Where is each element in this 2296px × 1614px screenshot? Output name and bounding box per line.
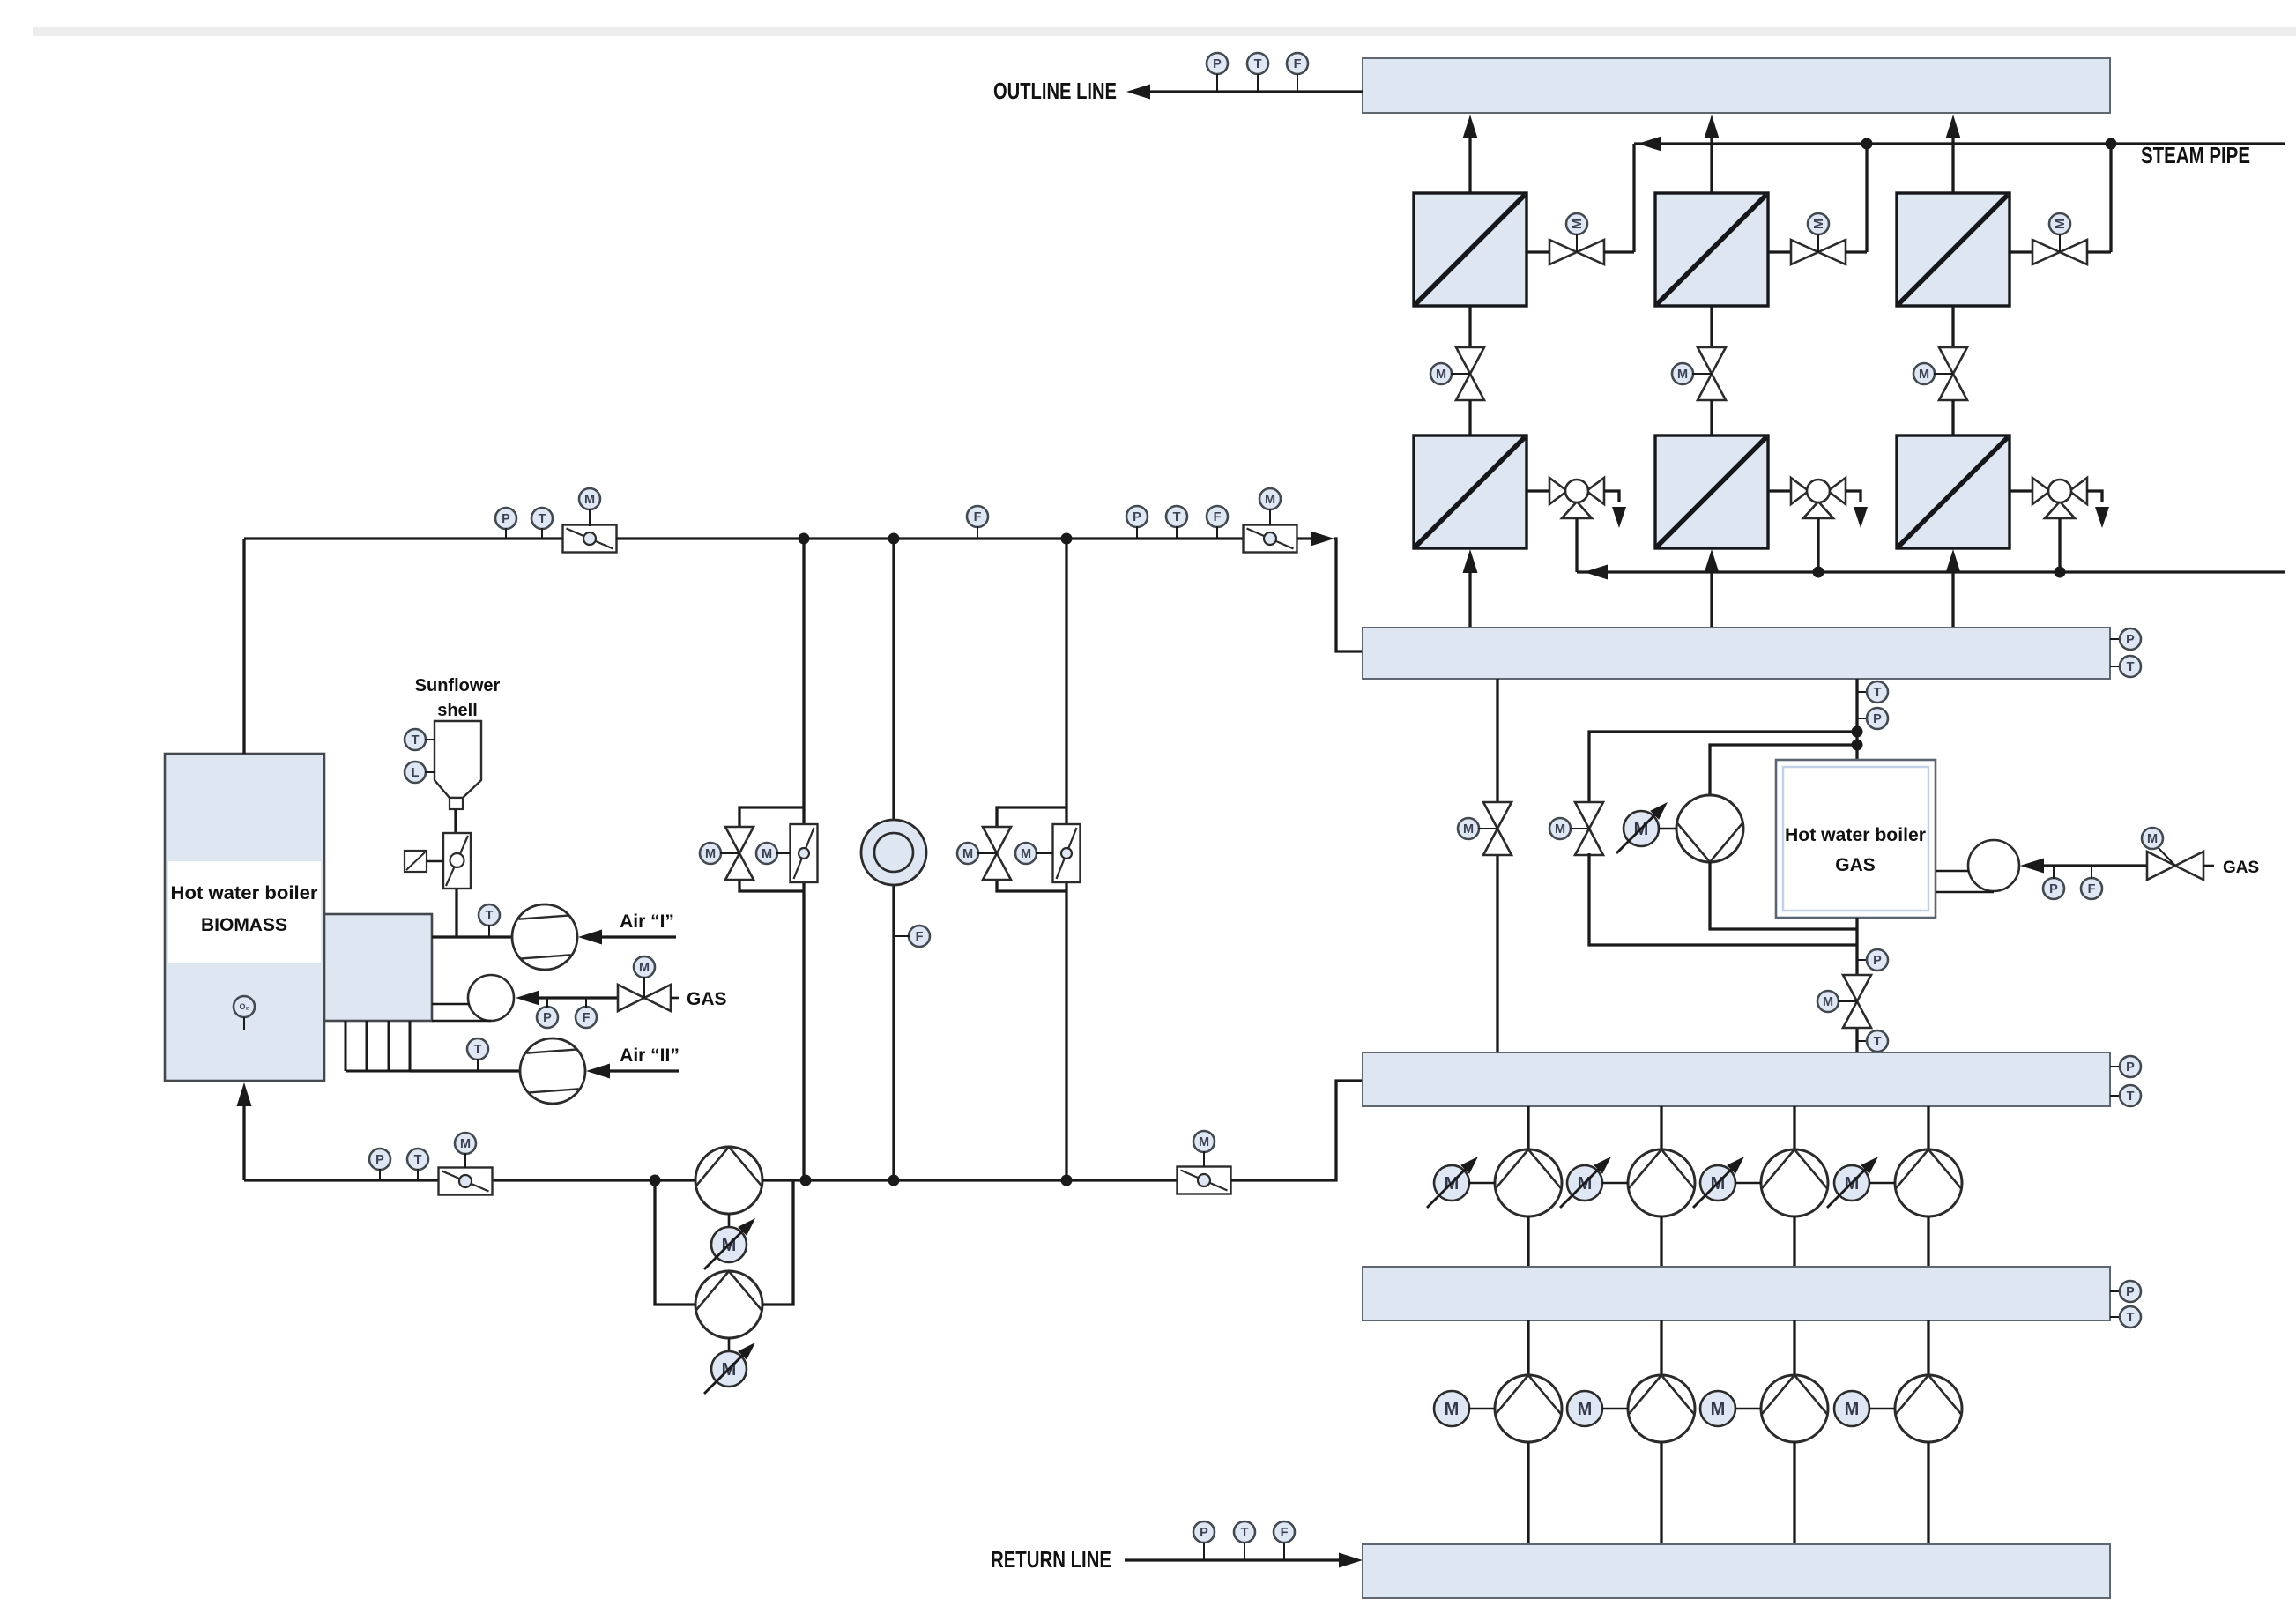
three-way valve 2 drain (1846, 491, 1861, 502)
wire header3 to pump 3 (1793, 1106, 1795, 1150)
svg-text:T: T (1173, 510, 1181, 524)
steam pipe drop 1 (1632, 144, 1635, 252)
T instrument hopper (405, 729, 426, 750)
T instrument header2 (2110, 666, 2121, 667)
junction recirc x2063 (1813, 567, 1824, 578)
circulation pump A (695, 1147, 762, 1214)
svg-text:P: P (543, 1011, 552, 1025)
riser 3 (1065, 539, 1067, 1180)
wire header4 to pump 7 (1793, 1320, 1795, 1376)
M drive gas boiler pump (1624, 811, 1659, 846)
junction pump bypass (650, 1175, 661, 1186)
svg-text:M: M (460, 1137, 471, 1151)
M drive pump 6 (1567, 1391, 1602, 1426)
M actuator flow element 1 (579, 488, 600, 509)
M actuator motor valve 1 (1430, 363, 1452, 384)
svg-text:P: P (2126, 633, 2135, 647)
three-way valve 1 (1527, 489, 1549, 492)
svg-text:M: M (1578, 1400, 1593, 1419)
svg-text:T: T (2127, 660, 2135, 674)
wire header2 to exchanger HX4 (1468, 556, 1471, 629)
P instrument return (369, 1149, 390, 1170)
header supply collector (1363, 628, 2110, 679)
svg-text:M: M (1919, 368, 1929, 382)
air II duct (410, 1069, 520, 1072)
wire feeder to air duct (455, 889, 457, 937)
svg-text:M: M (1823, 995, 1833, 1009)
three-way valve 3 recirculation drop (2058, 518, 2061, 572)
network pump 8 (1895, 1375, 1962, 1442)
svg-text:Air “II”: Air “II” (620, 1045, 680, 1066)
flow element return right (1178, 1167, 1231, 1194)
steam pipe line (1634, 142, 2285, 145)
wire pump 2 to header4 (1660, 1216, 1662, 1267)
steam valve 1 (1527, 250, 1549, 253)
T instrument return (407, 1149, 428, 1170)
air I inlet arrow (599, 935, 676, 938)
bypass bracket 1 (739, 807, 804, 827)
wire pump 8 to return header (1927, 1442, 1929, 1544)
flow element supply left (563, 525, 617, 553)
svg-text:M: M (762, 847, 772, 861)
valve gas boiler return (1843, 975, 1871, 1001)
M actuator steam valve 1 (1566, 213, 1587, 234)
F instrument supply mid (967, 506, 988, 527)
svg-text:M: M (1436, 368, 1446, 382)
svg-text:T: T (1241, 1526, 1249, 1540)
svg-text:P: P (502, 512, 510, 526)
junction steam x2395 (2106, 138, 2117, 150)
wire header4 to pump 5 (1527, 1320, 1529, 1376)
wire header2 to gas boiler (1855, 679, 1858, 760)
svg-text:STEAM PIPE: STEAM PIPE (2141, 142, 2250, 168)
M drive pump 1 (1434, 1165, 1469, 1201)
T instrument outline (1247, 53, 1268, 74)
three-way valve 1 recirculation drop (1575, 518, 1578, 572)
svg-text:F: F (1294, 57, 1302, 71)
pump gas boiler (1676, 795, 1743, 862)
svg-text:shell: shell (437, 701, 478, 720)
svg-text:M: M (1445, 1400, 1460, 1419)
svg-text:RETURN LINE: RETURN LINE (991, 1546, 1111, 1573)
M actuator gas boiler branch valve (1549, 818, 1571, 839)
T instrument header4 (2110, 1316, 2121, 1318)
svg-text:F: F (583, 1011, 591, 1025)
P instrument gas1 (537, 1007, 558, 1028)
three-way valve 2 (1768, 489, 1791, 492)
junction supply x1014 (888, 533, 900, 545)
hot water boiler GAS vessel (1776, 760, 1936, 918)
burner gas boiler (1968, 840, 2019, 891)
svg-text:T: T (2127, 1311, 2135, 1325)
T instrument gas boiler feed (1857, 691, 1868, 693)
O2 analyzer instrument (234, 996, 255, 1017)
network pump 6 (1628, 1375, 1695, 1442)
svg-text:F: F (974, 510, 982, 524)
junction steam x2118 (1861, 138, 1873, 150)
heat exchanger HX1 (top row) (1414, 193, 1527, 306)
T instrument header3 (2110, 1095, 2121, 1097)
return line left segment (244, 1179, 695, 1181)
F instrument return line (1274, 1521, 1295, 1543)
svg-text:M: M (1711, 1400, 1726, 1419)
wire header4 to pump 6 (1660, 1320, 1662, 1376)
svg-text:OUTLINE LINE: OUTLINE LINE (993, 78, 1117, 104)
svg-text:F: F (1281, 1526, 1289, 1540)
rotary feeder (443, 833, 471, 889)
gas boiler bypass valve branch (1589, 732, 1857, 804)
P instrument gas boiler return (1857, 959, 1868, 961)
heat exchanger HX6 (bottom row) (1897, 435, 2010, 548)
M actuator gas boiler return valve (1817, 991, 1839, 1012)
svg-text:M: M (1199, 1135, 1209, 1149)
network pump 7 (1761, 1375, 1828, 1442)
M actuator flow element 2 (1259, 488, 1281, 509)
svg-text:T: T (1874, 1035, 1882, 1049)
M actuator motor valve 3 (1913, 363, 1935, 384)
M drive pump 2 (1567, 1165, 1602, 1201)
wire pump 7 to return header (1793, 1442, 1795, 1544)
gas line biomass boiler (516, 991, 539, 1006)
junction return x1014 (888, 1175, 900, 1186)
three-way valve 3 (2010, 489, 2032, 492)
wire gas boiler bottom (1855, 918, 1858, 1052)
svg-text:GAS: GAS (2223, 859, 2259, 877)
junction supply x912 (799, 533, 810, 545)
svg-text:Hot water boiler: Hot water boiler (171, 883, 318, 904)
svg-text:T: T (539, 512, 546, 526)
three-way valve 1 drain (1604, 491, 1619, 502)
M drive pump 5 (1434, 1391, 1469, 1426)
F instrument riser 2 (909, 926, 930, 947)
wire hopper to feeder (454, 809, 457, 833)
heat exchanger HX4 (bottom row) (1414, 435, 1527, 548)
svg-text:M: M (1265, 493, 1275, 507)
svg-text:M: M (1571, 219, 1585, 229)
P instrument outline (1207, 53, 1228, 74)
F instrument outline (1287, 53, 1308, 74)
M actuator bypass drop valve (1458, 818, 1479, 839)
M drive pump 7 (1700, 1391, 1735, 1426)
recirculation line (1577, 570, 2285, 573)
M actuator motor valve 2 (1672, 363, 1693, 384)
svg-text:T: T (474, 1043, 482, 1057)
svg-text:Sunflower: Sunflower (415, 676, 501, 695)
M drive pump 3 (1700, 1165, 1735, 1201)
svg-text:M: M (1021, 847, 1031, 861)
M actuator steam valve 3 (2049, 213, 2070, 234)
L instrument hopper (405, 762, 426, 783)
sunflower shell hopper (435, 721, 481, 798)
P instrument supply (495, 508, 516, 529)
T instrument supply (531, 508, 553, 529)
wire header3 to pump 1 (1527, 1106, 1529, 1150)
svg-text:T: T (486, 909, 494, 923)
flow element riser 3 (1053, 824, 1081, 882)
M actuator bypass valve 1 (700, 843, 721, 864)
svg-text:M: M (639, 961, 650, 975)
return into header3 (1231, 1081, 1363, 1180)
air II inlet arrow (607, 1069, 679, 1072)
svg-text:P: P (1213, 57, 1222, 71)
svg-text:F: F (1214, 510, 1222, 524)
P instrument gas2 (2043, 878, 2064, 899)
svg-text:T: T (2127, 1090, 2135, 1104)
pump A outlet (762, 1179, 806, 1181)
junction supply x1210 (1061, 533, 1073, 545)
return line mid segment (806, 1179, 1177, 1181)
svg-text:Hot water boiler: Hot water boiler (1785, 825, 1926, 845)
T instrument air II (467, 1038, 488, 1060)
junction recirc x2337 (2055, 567, 2066, 578)
svg-text:GAS: GAS (1835, 855, 1876, 875)
svg-text:P: P (2126, 1060, 2135, 1075)
header distribution return upper (1363, 1267, 2110, 1320)
decor top strip (33, 27, 2296, 36)
svg-text:T: T (414, 1153, 422, 1167)
motor valve 3 between exchangers (1951, 306, 1954, 347)
valve gas boiler branch (1575, 802, 1603, 829)
pump B outlet (762, 1180, 793, 1305)
svg-text:M: M (1812, 219, 1826, 229)
P instrument header2 (2110, 638, 2121, 640)
network pump 2 (variable speed) (1628, 1149, 1695, 1216)
steam pipe drop 3 (2109, 144, 2112, 252)
circulation pump B (695, 1271, 762, 1338)
svg-text:M: M (705, 847, 716, 861)
flow element supply right (1244, 525, 1297, 553)
feeder drive box (405, 851, 427, 872)
wire return into boiler bottom (242, 1088, 245, 1180)
svg-text:Air “I”: Air “I” (620, 911, 674, 932)
steam pipe drop 2 (1865, 144, 1868, 252)
F instrument gas2 (2081, 878, 2102, 899)
burner biomass (468, 975, 514, 1021)
F instrument gas1 (576, 1007, 597, 1028)
three-way valve 2 recirculation drop (1817, 518, 1819, 572)
hot water boiler BIOMASS vessel (165, 754, 324, 1081)
steam valve 2 (1768, 250, 1791, 253)
M drive pump B (728, 1338, 731, 1351)
supply into header2 (1297, 537, 1315, 539)
network pump 5 (1495, 1375, 1562, 1442)
wire exchanger 2 to outline header (1710, 123, 1713, 193)
furnace box (324, 914, 432, 1021)
grate comb (345, 1021, 347, 1071)
junction return x912 (800, 1175, 812, 1186)
pump bypass loop (655, 1180, 695, 1305)
fan air I (512, 904, 577, 970)
svg-text:F: F (916, 930, 924, 944)
P instrument header3 (2110, 1066, 2121, 1067)
bypass drop header2-header3 (1496, 679, 1498, 1052)
bypass bracket 3 (997, 807, 1066, 827)
M actuator bypass valve 3 (957, 843, 978, 864)
network pump 1 (variable speed) (1495, 1149, 1562, 1216)
svg-text:M: M (2147, 832, 2158, 846)
M actuator riser 3 element (1015, 843, 1037, 864)
svg-text:L: L (412, 766, 420, 780)
riser 2 (892, 539, 895, 1180)
svg-text:T: T (1874, 686, 1882, 700)
svg-text:M: M (1677, 368, 1688, 382)
M actuator gas valve 1 (634, 956, 655, 978)
wire pump 1 to header4 (1527, 1216, 1529, 1267)
gas boiler pump branch (1710, 745, 1857, 795)
T instrument gas boiler return (1857, 1040, 1868, 1042)
svg-text:M: M (1463, 822, 1474, 837)
gas line gas boiler (2020, 859, 2044, 874)
valve bypass 3 (983, 827, 1011, 853)
wire header2 to exchanger HX5 (1710, 556, 1713, 629)
M actuator return right element (1193, 1131, 1215, 1152)
svg-text:P: P (2049, 882, 2058, 896)
heat exchanger HX3 (top row) (1897, 193, 2010, 306)
svg-text:T: T (412, 733, 420, 747)
svg-text:P: P (1133, 510, 1141, 524)
motor valve 1 between exchangers (1468, 306, 1471, 347)
P instrument supply right (1126, 506, 1148, 527)
M actuator riser 1 element (756, 843, 777, 864)
riser 1 (802, 539, 805, 1180)
fan air II (520, 1038, 585, 1104)
svg-text:M: M (584, 493, 595, 507)
svg-text:P: P (1200, 1526, 1208, 1540)
wire branch valve down (1589, 853, 1857, 945)
M actuator gas valve 2 (2157, 846, 2175, 866)
outline line arrow (1139, 90, 1363, 93)
M actuator return element (455, 1133, 476, 1154)
GAS label left (671, 997, 679, 1000)
T instrument return line (1234, 1521, 1255, 1543)
junction gas feed b (1852, 740, 1863, 751)
wire header4 to pump 8 (1927, 1320, 1929, 1376)
valve gas supply 2 (2147, 852, 2175, 880)
P instrument gas boiler feed (1857, 718, 1868, 719)
M drive pump A (728, 1214, 731, 1227)
flow element riser 1 (791, 824, 818, 882)
F instrument supply right (1207, 506, 1228, 527)
header outline line (1363, 58, 2110, 113)
T instrument air I (479, 904, 500, 926)
pressure keeper device (861, 820, 926, 885)
M drive pump 8 (1834, 1391, 1869, 1426)
valve bypass drop (1483, 802, 1512, 829)
M drive pump 4 (1834, 1165, 1869, 1201)
T instrument supply right (1166, 506, 1187, 527)
network pump 3 (variable speed) (1761, 1149, 1828, 1216)
svg-text:P: P (1873, 954, 1882, 968)
flow element return (439, 1168, 493, 1195)
wire pump 4 to header4 (1927, 1216, 1929, 1267)
air I duct (432, 935, 512, 938)
P instrument return line (1193, 1521, 1215, 1543)
wire header3 to pump 4 (1927, 1106, 1929, 1150)
wire exchanger 3 to outline header (1951, 123, 1954, 193)
P instrument header4 (2110, 1290, 2121, 1292)
svg-text:M: M (1845, 1400, 1860, 1419)
valve bypass 1 (725, 827, 754, 853)
junction return x1210 (1061, 1175, 1073, 1186)
svg-text:M: M (2054, 219, 2068, 229)
header return collector (1363, 1544, 2110, 1598)
heat exchanger HX2 (top row) (1655, 193, 1768, 306)
wire exchanger 1 to outline header (1468, 123, 1471, 193)
svg-text:P: P (2126, 1285, 2135, 1299)
heat exchanger HX5 (bottom row) (1655, 435, 1768, 548)
svg-text:M: M (1555, 822, 1565, 837)
header distribution supply (1363, 1052, 2110, 1106)
svg-text:T: T (1254, 57, 1262, 71)
junction gas feed a (1852, 726, 1863, 738)
svg-text:P: P (1873, 712, 1882, 726)
wire pump 5 to return header (1527, 1442, 1529, 1544)
supply line mid segment (616, 537, 1244, 539)
wire pump 3 to header4 (1793, 1216, 1795, 1267)
wire gas pump down (1710, 862, 1857, 929)
GAS label right (2203, 865, 2214, 867)
wire header3 to pump 2 (1660, 1106, 1662, 1150)
motor valve 2 between exchangers (1710, 306, 1713, 347)
steam valve 3 (2010, 250, 2032, 253)
three-way valve 3 drain (2087, 491, 2102, 502)
svg-text:F: F (2088, 882, 2096, 896)
M actuator steam valve 2 (1808, 213, 1829, 234)
supply line left segment (244, 537, 563, 539)
svg-text:P: P (375, 1153, 384, 1167)
svg-text:M: M (962, 847, 973, 861)
wire pump 6 to return header (1660, 1442, 1662, 1544)
network pump 4 (variable speed) (1895, 1149, 1962, 1216)
wire header2 to exchanger HX6 (1951, 556, 1954, 629)
valve gas biomass (618, 985, 644, 1011)
svg-text:BIOMASS: BIOMASS (201, 915, 287, 935)
svg-text:O₂: O₂ (240, 1002, 249, 1011)
wire supply riser from boiler top (242, 539, 245, 754)
svg-text:GAS: GAS (687, 989, 727, 1009)
